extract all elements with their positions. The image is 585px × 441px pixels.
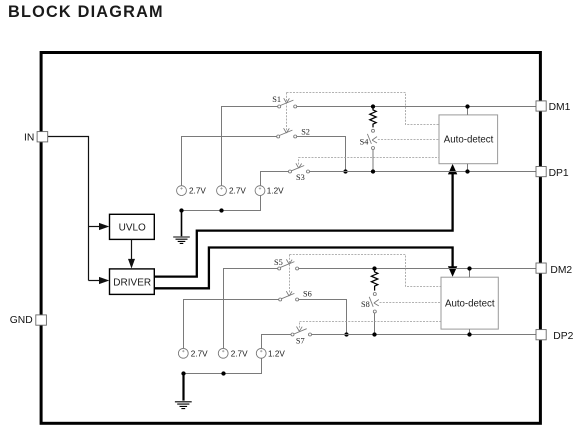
wire branch to UVLO [89,226,100,228]
wire S5 to DM2 [299,268,537,270]
wire source2 to S1 line [222,107,278,186]
svg-text:DP2: DP2 [553,331,573,342]
wire branch to DRIVER [89,280,100,282]
node S6 drop on DP2 line [344,332,348,336]
resistor R2 [371,269,377,291]
wire bottom bus of sources [182,196,261,211]
node source4 bottom [181,371,185,375]
wire S8 to DP2 line [374,313,376,335]
node source1 bottom [179,208,183,212]
voltage source V6 1.2V [256,348,266,358]
svg-text:Auto-detect: Auto-detect [445,298,495,309]
ground G1 [181,211,183,237]
wire source3 to S3 line [261,172,289,186]
wire source6 to S7 line [262,335,292,349]
pin IN [37,132,48,142]
svg-text:Auto-detect: Auto-detect [444,135,494,146]
pin DP1 [536,167,546,177]
block Auto-detect2 [441,277,498,329]
dashed control S5/S6 [289,255,291,294]
svg-text:2.7V: 2.7V [189,187,206,196]
svg-text:2.7V: 2.7V [231,349,248,358]
svg-text:S4: S4 [360,137,370,146]
pin DM1 [536,101,546,111]
node DP2 stub [469,329,471,334]
node DM2 stub [469,269,471,278]
svg-text:S1: S1 [272,95,281,104]
dashed control S7 [300,322,442,328]
svg-text:S7: S7 [296,336,305,345]
wire S2 down to DP1 line [297,137,346,172]
svg-text:DRIVER: DRIVER [113,277,151,288]
chip outer border [41,53,540,424]
svg-text:S8: S8 [361,300,370,309]
dashed control S1/S2 [286,93,288,131]
node DP1 stub [467,164,469,172]
svg-text:DM2: DM2 [550,265,572,276]
pin GND [36,315,47,325]
dashed control S8 [380,302,442,304]
svg-text:S3: S3 [296,173,305,182]
svg-text:2.7V: 2.7V [229,187,246,196]
voltage source V2 2.7V [217,186,227,196]
svg-text:S5: S5 [274,258,283,267]
wire DP2 line [312,334,537,336]
node R branch on DP1 line [371,169,375,173]
svg-text:DP1: DP1 [549,168,569,179]
svg-text:GND: GND [10,315,33,326]
block DRIVER [110,269,155,295]
svg-text:DM1: DM1 [549,102,571,113]
ground G2 [182,374,184,401]
wire S4 to DP1 line [372,150,374,172]
node source5 bottom [221,371,225,375]
svg-text:S6: S6 [303,290,312,299]
node R2 branch on DP2 line [372,332,376,336]
svg-text:UVLO: UVLO [119,223,146,234]
svg-text:1.2V: 1.2V [267,187,284,196]
node S2 drop on DP1 line [343,169,347,173]
wire S6 down to DP2 line [299,300,347,335]
node R2 top on DM2 line [372,266,376,270]
svg-text:2.7V: 2.7V [191,349,208,358]
block UVLO [110,214,155,239]
wire IN to branches (vertical trunk) [48,137,89,281]
voltage source V3 1.2V [255,186,265,196]
node R1 top on DM1 line [371,104,375,108]
pin DM2 [536,263,546,273]
svg-text:BLOCK DIAGRAM: BLOCK DIAGRAM [8,3,164,21]
voltage source V1 2.7V [177,186,187,196]
dashed control S3 [299,158,440,165]
wire DP1 line [310,171,537,173]
svg-text:1.2V: 1.2V [268,349,285,358]
wire source4 to S6 line [184,300,279,349]
wire source1 to S2 line [182,137,278,186]
wire bottom bus of sources2 [184,358,262,373]
svg-text:IN: IN [24,132,34,143]
block Auto-detect1 [439,115,498,164]
node DM1 stub [467,107,469,115]
node source2 bottom [219,208,223,212]
wire UVLO to DRIVER arrow [131,240,133,260]
bus2 DRIVER to Auto-detect2 (thick) [154,248,452,289]
wire S1 to DM1 [297,106,537,108]
svg-text:S2: S2 [301,128,310,137]
voltage source V5 2.7V [218,348,228,358]
resistor R1 [370,107,376,128]
voltage source V4 2.7V [178,348,188,358]
dashed control S4 [378,139,439,141]
bus1 DRIVER to Auto-detect1 (thick) [154,174,452,277]
pin DP2 [536,330,546,340]
wire source5 to S5 line [224,269,278,349]
